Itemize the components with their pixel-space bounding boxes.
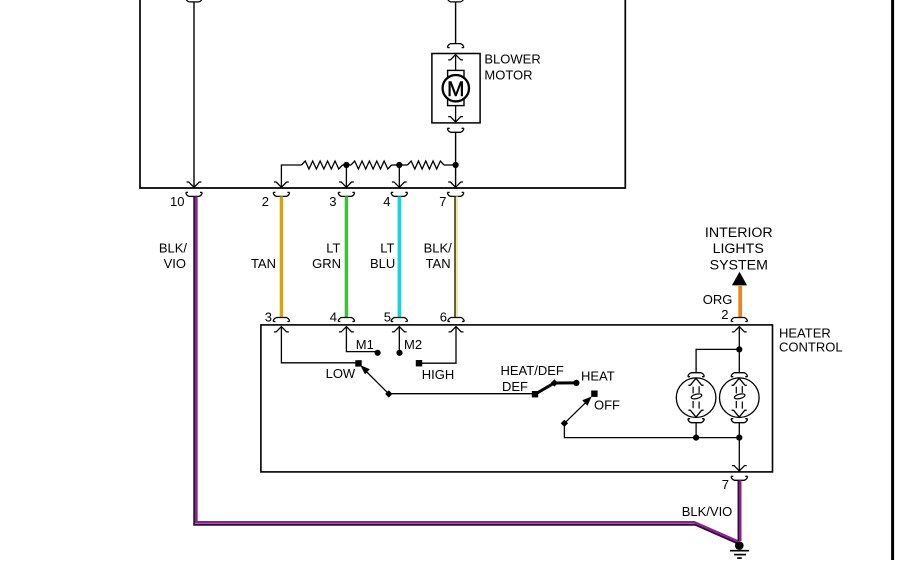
junction dot right lamp common	[736, 435, 742, 441]
svg-text:BLOWER: BLOWER	[484, 52, 540, 67]
pin 5 entry arrow	[392, 327, 407, 332]
svg-text:LOW: LOW	[326, 366, 356, 381]
svg-text:TAN: TAN	[251, 256, 276, 271]
svg-text:CONTROL: CONTROL	[779, 339, 843, 354]
svg-text:VIO: VIO	[164, 256, 186, 271]
wire pin4 to M1	[346, 327, 377, 352]
connector cup above heater pin 3	[273, 318, 289, 322]
svg-text:LT: LT	[326, 241, 340, 256]
wire	[444, 164, 456, 166]
HEAT contact dot	[573, 380, 579, 386]
M1 terminal dot	[375, 350, 381, 356]
blower motor	[432, 54, 480, 123]
svg-text:LIGHTS: LIGHTS	[713, 241, 764, 257]
svg-text:6: 6	[440, 310, 447, 325]
connector cup below blower motor	[447, 128, 463, 132]
wire right lamp to pin 7 exit	[738, 426, 740, 471]
ground G1	[730, 541, 749, 558]
pin 3 entry arrow	[274, 327, 289, 332]
illumination lamp left	[676, 369, 716, 427]
arrow into pin 4	[392, 182, 407, 187]
wire tap to pin 4	[398, 165, 400, 187]
fan switch wiper arm	[364, 369, 389, 394]
connector cup pin 3	[338, 192, 354, 196]
mode wiper diamond	[551, 379, 558, 386]
off-page arrow to interior lights system	[732, 272, 747, 286]
connector cup pin 7	[447, 192, 463, 196]
DEF contact square	[532, 391, 538, 397]
svg-text:M2: M2	[404, 337, 422, 352]
wire BLK/VIO (pin 7 to ground)	[739, 480, 742, 541]
wire elbow left of resistor	[281, 165, 301, 187]
arrow into pin 10	[187, 182, 202, 187]
wire motor to resistor junction	[455, 132, 457, 187]
svg-text:GRN: GRN	[312, 256, 341, 271]
arrow into pin 2	[274, 182, 289, 187]
svg-text:7: 7	[439, 194, 446, 209]
connector cup at top of wire to pin 10	[186, 0, 202, 2]
wire LT BLU	[398, 196, 401, 317]
svg-text:DEF: DEF	[502, 379, 528, 394]
blower resistor network	[281, 161, 455, 187]
pin 2 entry arrow	[732, 327, 747, 332]
connector cup above heater pin 6	[448, 318, 464, 322]
pin 6 entry arrow	[449, 327, 464, 332]
resistor R3	[408, 161, 445, 169]
fuse/junction block outline (top box)	[140, 0, 625, 188]
svg-text:3: 3	[329, 194, 336, 209]
connector cup pin 4	[391, 192, 407, 196]
connector cup above blower motor	[447, 44, 463, 48]
svg-text:HIGH: HIGH	[422, 367, 455, 382]
svg-text:M: M	[447, 78, 465, 101]
arrow into pin 3	[339, 182, 354, 187]
connector cup above heater pin 2	[731, 318, 747, 322]
wire	[343, 164, 352, 166]
svg-text:INTERIOR: INTERIOR	[705, 225, 773, 241]
svg-text:HEAT/DEF: HEAT/DEF	[501, 363, 564, 378]
svg-text:5: 5	[384, 310, 391, 325]
junction dot left lamp common	[693, 435, 699, 441]
wire pin5 to M2	[398, 327, 400, 353]
connector cup pin 10	[186, 192, 202, 196]
arrow into pin 7	[448, 182, 463, 187]
svg-text:HEATER: HEATER	[779, 326, 831, 341]
svg-text:BLK/: BLK/	[424, 241, 453, 256]
connector cup below heater pin 7	[731, 476, 747, 480]
svg-text:LT: LT	[380, 241, 394, 256]
wire pin2 down to right lamp	[738, 327, 740, 370]
svg-text:TAN: TAN	[426, 256, 451, 271]
wire pin6 to HIGH contact	[419, 327, 456, 364]
connector cup above heater pin 4	[338, 318, 354, 322]
wire pin3 to LOW contact	[281, 327, 358, 363]
pin 4 entry arrow	[339, 327, 354, 332]
svg-text:2: 2	[262, 194, 269, 209]
svg-text:OFF: OFF	[594, 398, 620, 413]
junction dot at pin2 branch	[736, 346, 742, 352]
fan switch wiring	[281, 327, 535, 394]
illumination lamp right	[720, 369, 760, 427]
wire wiper pole to DEF contact	[389, 393, 535, 395]
svg-text:4: 4	[330, 310, 337, 325]
svg-text:BLK/: BLK/	[159, 241, 188, 256]
arrow out pin 7	[732, 466, 747, 471]
wire off pole to lamp commons	[564, 423, 739, 437]
off switch arm	[564, 398, 590, 424]
heater control box	[261, 325, 773, 472]
wire tap to pin 3	[345, 165, 347, 187]
connector cup above heater pin 5	[391, 318, 407, 322]
fan wiper pole diamond	[385, 390, 392, 397]
wire ORG	[738, 285, 742, 318]
svg-text:BLK/VIO: BLK/VIO	[682, 504, 733, 519]
junction dot	[396, 162, 402, 168]
svg-text:SYSTEM: SYSTEM	[710, 258, 768, 274]
wire (vertical, down to blower motor)	[455, 2, 457, 44]
svg-text:MOTOR: MOTOR	[484, 68, 532, 83]
svg-text:HEAT: HEAT	[581, 369, 615, 384]
svg-text:4: 4	[383, 194, 390, 209]
wire BLK/VIO (pin 10 down, left run, to ground)	[196, 196, 738, 541]
HIGH contact square	[416, 360, 422, 366]
wire	[392, 164, 408, 166]
connector cup pin 2	[273, 192, 289, 196]
lamp feed wiring	[564, 327, 739, 471]
M2 terminal dot	[396, 350, 402, 356]
mode wiper bold arm	[535, 383, 576, 394]
resistor R1	[302, 161, 343, 169]
svg-text:BLU: BLU	[370, 256, 395, 271]
off arm arrowhead	[583, 398, 590, 405]
LOW contact square	[355, 360, 361, 366]
resistor R2	[351, 161, 392, 169]
svg-text:M1: M1	[356, 337, 374, 352]
wire (vertical, box feed to pin 10)	[193, 2, 195, 187]
svg-text:10: 10	[170, 194, 184, 209]
junction dot	[343, 162, 349, 168]
connector cup at top of blower motor wire	[447, 0, 463, 2]
OFF contact square	[591, 391, 597, 397]
page border line (right)	[891, 0, 894, 560]
svg-text:ORG: ORG	[703, 292, 733, 307]
wire branch to left lamp	[696, 349, 739, 369]
fan wiper arrowhead	[362, 366, 369, 373]
wire LT GRN	[345, 196, 348, 317]
svg-text:2: 2	[721, 307, 728, 322]
svg-text:3: 3	[265, 310, 272, 325]
off pole diamond	[561, 420, 568, 427]
wire BLK/TAN	[456, 196, 458, 317]
wire TAN	[280, 196, 283, 317]
wire left lamp to common	[695, 426, 697, 437]
svg-text:7: 7	[722, 477, 729, 492]
junction dot	[453, 162, 459, 168]
